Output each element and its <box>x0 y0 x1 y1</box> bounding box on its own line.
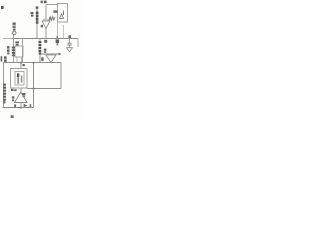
label above crystal <box>15 41 19 43</box>
junction blob below bus at 57 <box>56 39 59 43</box>
label R1 <box>31 12 34 14</box>
wire H1 main bus <box>3 38 78 40</box>
arrow on bottom line <box>24 104 28 108</box>
terminal circle IN <box>12 31 16 35</box>
corner mark <box>1 6 4 9</box>
wire amp to bottom <box>20 103 22 108</box>
wire V2 <box>22 39 24 63</box>
label below shield box <box>11 89 14 91</box>
junction dots <box>33 62 35 64</box>
component C1 hatch <box>12 47 15 49</box>
wire V4 lower <box>45 29 47 39</box>
label above output line <box>44 49 47 51</box>
resistor R1 body marks <box>36 6 39 8</box>
label beside shield wire <box>22 64 24 66</box>
wire H3 mid line <box>3 62 61 64</box>
capacitor C at 69.5 <box>69 39 71 43</box>
diode mark in box <box>60 14 64 19</box>
wire H4 lower line <box>27 88 61 90</box>
wire V13 into box <box>20 63 22 69</box>
label top center <box>41 1 44 4</box>
crystal inner marks <box>17 73 19 77</box>
label left of C1 <box>7 46 10 48</box>
squiggle left of box <box>53 10 57 12</box>
wire H5 bottom line <box>3 107 34 109</box>
wire H2 top link <box>46 4 58 6</box>
wire V8 right stub <box>77 39 79 48</box>
wire H6 output line <box>40 53 59 55</box>
op-amp T1 down <box>42 21 50 29</box>
label left of amp <box>12 96 15 98</box>
left rail component column <box>3 84 6 86</box>
arrow output <box>59 53 62 56</box>
mark above bus at 69 <box>68 35 71 38</box>
label near T1 <box>49 17 52 19</box>
resistor R2 body marks <box>39 41 42 43</box>
op-amp T3 up <box>15 92 28 103</box>
wire V4 upper <box>45 5 47 21</box>
crystal box B3 <box>15 46 23 57</box>
wire V6 <box>63 25 65 39</box>
box shield B2 <box>11 69 28 89</box>
wire V12 <box>33 63 35 108</box>
wire box to amp <box>20 89 22 93</box>
ground G1 <box>67 48 73 52</box>
colon blobs left <box>4 56 7 58</box>
label right of amp apex <box>22 93 25 95</box>
small mark bottom <box>11 115 14 118</box>
box inner crystal can <box>15 72 24 86</box>
wire V5 below box <box>57 22 59 39</box>
wire V11 <box>60 63 62 89</box>
wire V3 <box>36 7 38 39</box>
wire V1 <box>13 35 15 63</box>
junction blob below bus at 46 <box>44 40 47 43</box>
label above terminal <box>13 23 16 25</box>
wire V14 left rail <box>3 63 5 108</box>
resistor R at 40 <box>39 39 41 42</box>
op-amp T2 down <box>46 55 56 63</box>
box U2 <box>58 4 68 23</box>
